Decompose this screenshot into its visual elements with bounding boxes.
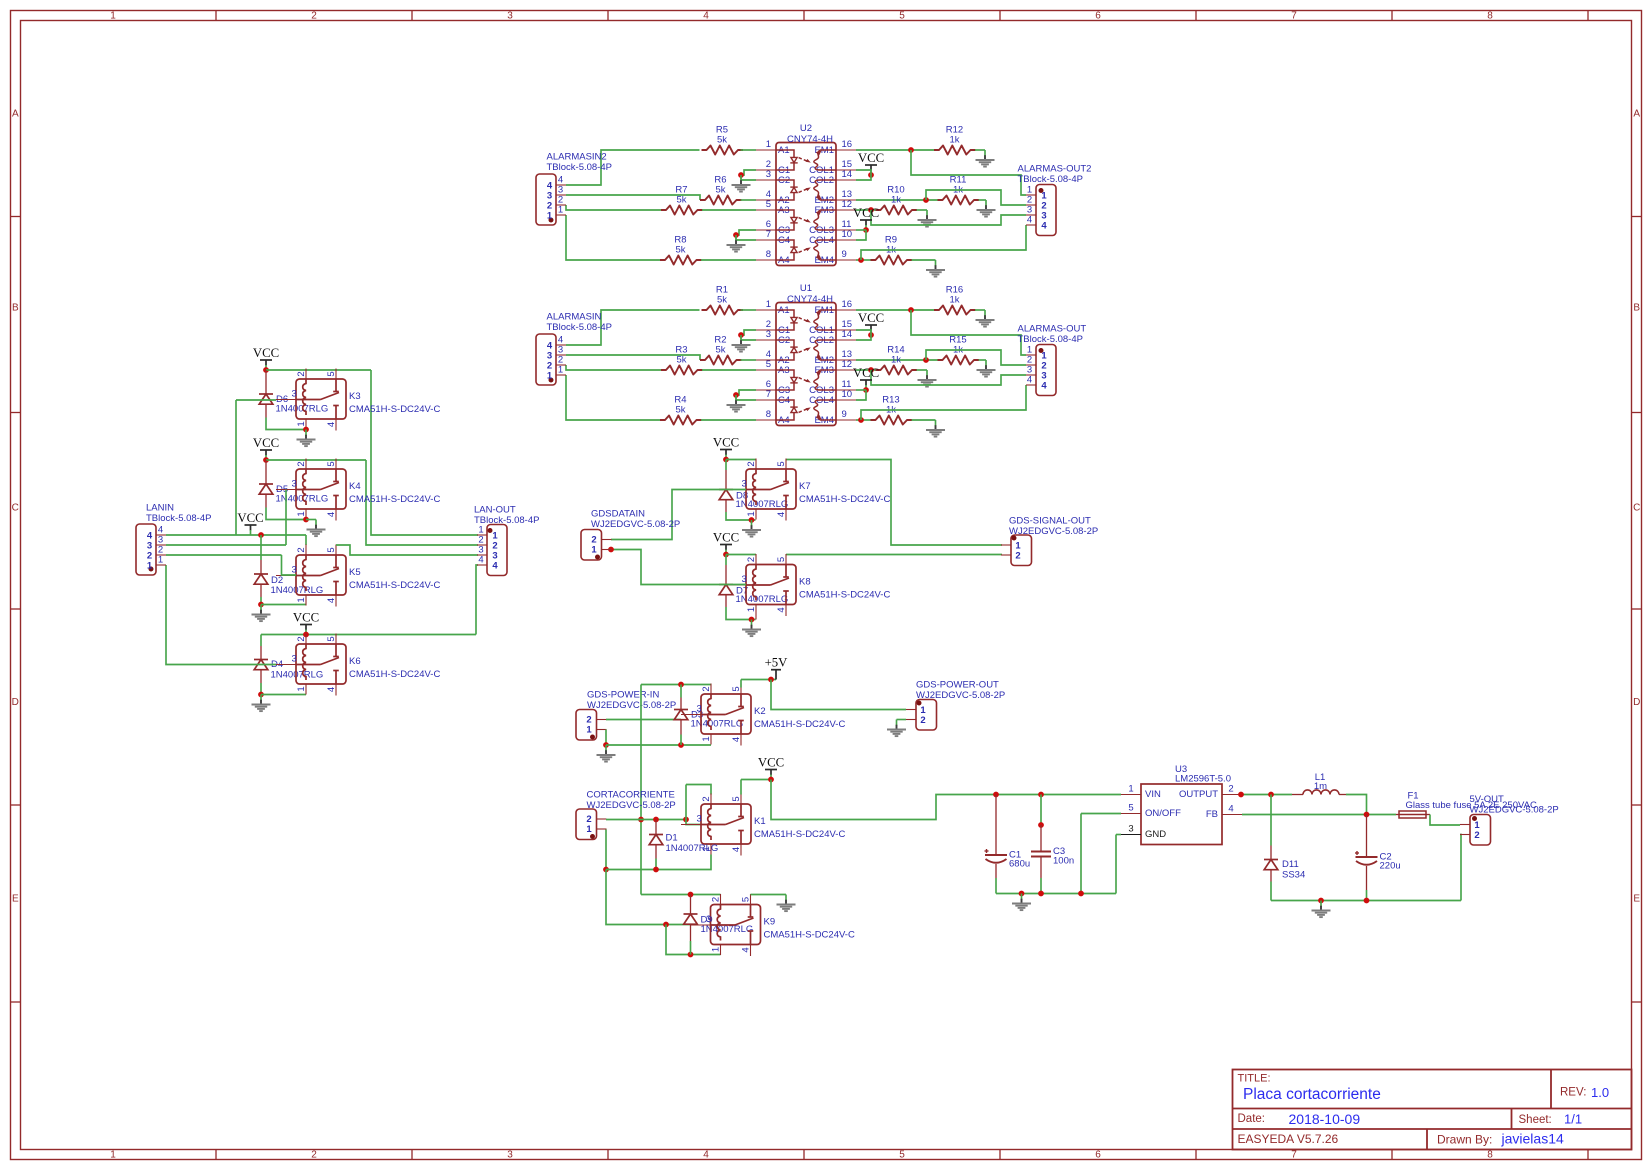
capacitor C1 680u bbox=[985, 854, 1007, 856]
diode D2 top lead bbox=[260, 535, 262, 560]
svg-text:3: 3 bbox=[292, 565, 297, 576]
ground bbox=[984, 150, 986, 156]
U1 pin 3 (C2) stub bbox=[756, 339, 776, 341]
wire R to U pin8 bbox=[701, 419, 756, 421]
svg-text:8: 8 bbox=[766, 409, 771, 420]
svg-text:VCC: VCC bbox=[853, 366, 879, 380]
svg-text:TBlock-5.08-4P: TBlock-5.08-4P bbox=[474, 515, 539, 526]
wire K3.5 to LAN-OUT.1 bbox=[371, 370, 478, 535]
ALARMASIN pin 4 stub bbox=[556, 344, 566, 346]
svg-text:ALARMAS-OUT: ALARMAS-OUT bbox=[1018, 324, 1087, 335]
diode D7 bottom lead bbox=[725, 595, 727, 608]
svg-text:5: 5 bbox=[326, 636, 337, 641]
svg-text:1: 1 bbox=[586, 824, 592, 835]
svg-text:Sheet:: Sheet: bbox=[1519, 1114, 1552, 1126]
GDS-POWER-OUT pin-1 marker bbox=[917, 701, 922, 706]
svg-text:VCC: VCC bbox=[853, 206, 879, 220]
U2 pin 5 (A3) stub bbox=[756, 209, 776, 211]
border column tick bbox=[1391, 11, 1393, 21]
svg-text:7: 7 bbox=[766, 389, 771, 400]
K9 pin 3 stub bbox=[691, 924, 711, 926]
GDS-SIGNAL-OUT pin-1 marker bbox=[1012, 536, 1017, 541]
svg-text:1N4007RLG: 1N4007RLG bbox=[271, 670, 324, 681]
output ground rail bbox=[1271, 900, 1461, 902]
svg-text:5k: 5k bbox=[675, 405, 685, 416]
svg-text:220u: 220u bbox=[1380, 861, 1401, 872]
junction bbox=[908, 307, 914, 313]
relay K5 CMA51H-S-DC24V-C bbox=[296, 555, 346, 595]
svg-text:K7: K7 bbox=[799, 481, 811, 492]
svg-text:4: 4 bbox=[1027, 215, 1032, 226]
svg-text:GDS-SIGNAL-OUT: GDS-SIGNAL-OUT bbox=[1009, 516, 1091, 527]
resistor R9 bbox=[871, 256, 913, 265]
GDSDATAIN pin-1 marker bbox=[595, 555, 600, 560]
K5 pin 4 stub bbox=[335, 595, 337, 607]
diode D5 top lead bbox=[265, 460, 267, 484]
svg-text:C: C bbox=[1633, 503, 1640, 514]
U2 internal channel 4 bbox=[776, 253, 794, 260]
ALARMASIN pin-1 marker bbox=[549, 378, 554, 383]
svg-text:5k: 5k bbox=[717, 135, 727, 146]
svg-text:CMA51H-S-DC24V-C: CMA51H-S-DC24V-C bbox=[764, 930, 855, 941]
wire +5V to GDS-POWER-OUT.1 bbox=[771, 680, 906, 710]
U1 pin 9 (EM4) stub bbox=[836, 419, 856, 421]
connector GDSDATAIN WJ2EDGVC-5.08-2P bbox=[581, 530, 602, 561]
ground bbox=[735, 395, 737, 401]
wire EM3 node bbox=[856, 209, 876, 211]
svg-text:TBlock-5.08-4P: TBlock-5.08-4P bbox=[146, 513, 211, 524]
svg-text:1: 1 bbox=[296, 597, 307, 602]
ALARMAS-OUT pin 4 stub bbox=[1026, 384, 1036, 386]
svg-text:6: 6 bbox=[1095, 10, 1101, 21]
svg-text:2: 2 bbox=[1228, 784, 1233, 795]
ALARMAS-OUT pin 1 stub bbox=[1026, 354, 1036, 356]
VCC flag (K7) bbox=[720, 449, 732, 451]
svg-text:Placa cortacorriente: Placa cortacorriente bbox=[1243, 1086, 1381, 1103]
svg-text:9: 9 bbox=[842, 409, 847, 420]
ALARMAS-OUT2 pin 1 stub bbox=[1026, 194, 1036, 196]
diode D4 bottom lead bbox=[260, 670, 262, 683]
K9 pin 4 stub bbox=[750, 945, 752, 957]
svg-text:10: 10 bbox=[842, 389, 853, 400]
K2 pin 3 stub bbox=[681, 714, 701, 716]
connector ALARMAS-OUT2 TBlock-5.08-4P bbox=[1036, 185, 1056, 236]
K6 pin 4 stub bbox=[335, 684, 337, 696]
svg-text:2: 2 bbox=[311, 1149, 317, 1160]
svg-text:4: 4 bbox=[1041, 221, 1047, 232]
svg-text:LM2596T-5.0: LM2596T-5.0 bbox=[1175, 774, 1231, 785]
svg-text:5k: 5k bbox=[675, 245, 685, 256]
ground bbox=[735, 235, 737, 241]
relay K6 CMA51H-S-DC24V-C bbox=[296, 644, 346, 684]
U1 pin 15 (COL1) stub bbox=[836, 329, 856, 331]
K4 pin 2 stub bbox=[305, 459, 307, 470]
ALARMASIN2 pin 2 stub bbox=[556, 204, 566, 206]
wire VCC to U3 VIN rail bbox=[771, 780, 1121, 820]
U2 pin 13 (EM2) stub bbox=[836, 199, 856, 201]
junction bbox=[738, 172, 744, 178]
ground bbox=[926, 210, 928, 216]
capacitor C2 220u bbox=[1356, 856, 1378, 858]
svg-text:12: 12 bbox=[842, 359, 853, 370]
svg-text:U2: U2 bbox=[800, 123, 812, 134]
svg-text:GND: GND bbox=[1145, 829, 1166, 840]
K6 pin 1 stub bbox=[305, 684, 307, 695]
diode D11 bottom lead bbox=[1270, 870, 1272, 882]
+5V flag bbox=[771, 669, 781, 671]
svg-text:K3: K3 bbox=[349, 391, 361, 402]
wire CORTACORRIENTE.1 down bbox=[605, 830, 607, 870]
wire VCC to K3 coil/contact bbox=[266, 369, 371, 371]
junction bbox=[768, 677, 774, 683]
svg-text:K2: K2 bbox=[754, 706, 766, 717]
wire K9.5 to ground bbox=[751, 894, 787, 896]
ALARMAS-OUT pin 2 stub bbox=[1026, 364, 1036, 366]
resistor R6 bbox=[700, 196, 742, 205]
wire R to U pin1 bbox=[741, 149, 757, 151]
junction bbox=[863, 227, 869, 233]
wire K5.5 to LAN-OUT.3 bbox=[336, 545, 478, 555]
svg-text:CMA51H-S-DC24V-C: CMA51H-S-DC24V-C bbox=[799, 590, 890, 601]
wire D4 to ground node bbox=[260, 683, 262, 695]
K3 pin 1 stub bbox=[305, 419, 307, 430]
LAN-OUT pin 1 stub bbox=[477, 534, 487, 536]
svg-text:CMA51H-S-DC24V-C: CMA51H-S-DC24V-C bbox=[349, 494, 440, 505]
relay K8 CMA51H-S-DC24V-C bbox=[746, 565, 796, 605]
junction bbox=[683, 817, 689, 823]
diode D11 SS34 bbox=[1264, 859, 1278, 861]
svg-text:16: 16 bbox=[842, 299, 853, 310]
K8 pin 4 stub bbox=[785, 605, 787, 617]
svg-text:1N4007RLG: 1N4007RLG bbox=[666, 843, 719, 854]
svg-text:CMA51H-S-DC24V-C: CMA51H-S-DC24V-C bbox=[349, 404, 440, 415]
CORTACORRIENTE pin-1 marker bbox=[590, 834, 595, 839]
border row tick bbox=[11, 608, 21, 610]
wire VCC to K7 coil bbox=[726, 459, 756, 461]
U1 pin 6 (C3) stub bbox=[756, 389, 776, 391]
diode D2 1N4007RLG bbox=[254, 573, 268, 575]
LAN-OUT pin 4 stub bbox=[477, 564, 487, 566]
junction bbox=[303, 632, 309, 638]
svg-text:1: 1 bbox=[558, 365, 563, 376]
junction bbox=[908, 147, 914, 153]
svg-text:4: 4 bbox=[326, 422, 337, 427]
junction bbox=[723, 552, 729, 558]
svg-text:K8: K8 bbox=[799, 577, 811, 588]
wire OUTPUT node bbox=[1242, 794, 1292, 796]
wire C3/C4 to ground bbox=[736, 390, 756, 395]
svg-text:1: 1 bbox=[110, 10, 116, 21]
svg-text:Date:: Date: bbox=[1238, 1113, 1266, 1125]
junction bbox=[688, 892, 694, 898]
junction bbox=[258, 692, 264, 698]
node K2 coil top row bbox=[641, 684, 711, 686]
CORTACORRIENTE pin 1 stub bbox=[597, 828, 607, 830]
wire COL2 to VCC bbox=[856, 335, 871, 340]
ALARMASIN2 pin 1 stub bbox=[556, 214, 566, 216]
U1 pin 10 (COL4) stub bbox=[836, 399, 856, 401]
diode D3 top lead bbox=[680, 685, 682, 698]
wire ground row to K2.1 bbox=[606, 744, 711, 746]
wire K8.5 to GDS-SIGNAL-OUT.2 bbox=[786, 554, 1002, 556]
wire K9 coil row bbox=[641, 894, 721, 896]
svg-text:5: 5 bbox=[326, 371, 337, 376]
svg-text:REV:: REV: bbox=[1560, 1087, 1586, 1099]
svg-text:12: 12 bbox=[842, 199, 853, 210]
ground bbox=[751, 520, 753, 526]
svg-text:5k: 5k bbox=[717, 295, 727, 306]
GDS-POWER-OUT pin 1 stub bbox=[906, 709, 916, 711]
U1 internal channel 2 bbox=[776, 353, 794, 360]
U3 pin 5 ON/OFF stub bbox=[1121, 813, 1141, 815]
svg-text:TBlock-5.08-4P: TBlock-5.08-4P bbox=[1018, 174, 1083, 185]
svg-text:U1: U1 bbox=[800, 283, 812, 294]
wire ALARMASIN.1 to R4 bbox=[566, 375, 660, 420]
diode D8 top lead bbox=[725, 460, 727, 471]
wire L1 to C2/FB bbox=[1346, 795, 1367, 815]
U1 pin 1 (A1) stub bbox=[756, 309, 776, 311]
connector ALARMASIN TBlock-5.08-4P bbox=[536, 334, 556, 385]
svg-text:3: 3 bbox=[292, 654, 297, 665]
svg-text:9: 9 bbox=[842, 249, 847, 260]
relay K4 CMA51H-S-DC24V-C bbox=[296, 469, 346, 509]
svg-text:2: 2 bbox=[296, 461, 307, 466]
wire R11 to ground bbox=[979, 199, 987, 201]
svg-text:ALARMASIN2: ALARMASIN2 bbox=[547, 152, 607, 163]
wire R10 to ground bbox=[917, 209, 928, 211]
svg-text:EASYEDA V5.7.26: EASYEDA V5.7.26 bbox=[1238, 1132, 1339, 1146]
junction bbox=[1038, 822, 1044, 828]
svg-text:4: 4 bbox=[326, 687, 337, 692]
border column tick bbox=[999, 11, 1001, 21]
svg-text:8: 8 bbox=[1487, 10, 1493, 21]
GDS-POWER-IN pin 1 stub bbox=[597, 729, 607, 731]
wire bottom row to K1.1 bbox=[606, 855, 711, 870]
U1 pin 16 (EM1) stub bbox=[836, 309, 856, 311]
junction bbox=[993, 792, 999, 798]
wire down to K9.3 row bbox=[606, 870, 691, 925]
wire COL1 to VCC bbox=[856, 170, 871, 175]
svg-text:VCC: VCC bbox=[758, 756, 784, 770]
svg-text:1: 1 bbox=[110, 1149, 116, 1160]
relay K7 CMA51H-S-DC24V-C bbox=[746, 469, 796, 509]
diode D1 1N4007RLG bbox=[649, 834, 663, 836]
junction bbox=[868, 172, 874, 178]
K3 pin 5 stub bbox=[335, 369, 337, 380]
svg-text:4: 4 bbox=[776, 607, 787, 612]
wire K2.5 to +5V bbox=[740, 680, 742, 688]
diode D1 top lead bbox=[655, 820, 657, 835]
svg-text:4: 4 bbox=[776, 512, 787, 517]
ALARMAS-OUT pin-1 marker bbox=[1039, 348, 1044, 353]
wire GDS-POWER-IN.1 down bbox=[605, 730, 607, 746]
svg-text:1N4007RLG: 1N4007RLG bbox=[736, 594, 789, 605]
svg-text:3: 3 bbox=[697, 814, 702, 825]
svg-text:TBlock-5.08-4P: TBlock-5.08-4P bbox=[1018, 334, 1083, 345]
GDSDATAIN pin 1 stub bbox=[602, 549, 612, 551]
svg-text:B: B bbox=[1633, 303, 1640, 314]
svg-text:GDSDATAIN: GDSDATAIN bbox=[591, 509, 645, 520]
diode D5 bottom lead bbox=[265, 495, 267, 508]
junction bbox=[723, 457, 729, 463]
diode D6 1N4007RLG bbox=[259, 393, 273, 395]
svg-text:1: 1 bbox=[766, 139, 771, 150]
wire EM1 node bbox=[856, 309, 934, 311]
svg-text:CNY74-4H: CNY74-4H bbox=[787, 294, 833, 305]
svg-text:5: 5 bbox=[766, 199, 771, 210]
svg-text:K6: K6 bbox=[349, 656, 361, 667]
border column tick bbox=[1195, 11, 1197, 21]
svg-text:K5: K5 bbox=[349, 567, 361, 578]
wire R14 to ground bbox=[917, 369, 928, 371]
VCC flag bbox=[865, 164, 877, 166]
svg-text:WJ2EDGVC-5.08-2P: WJ2EDGVC-5.08-2P bbox=[587, 800, 676, 811]
wire EM3 to ALARMAS-OUT2.3 bbox=[871, 210, 1026, 225]
svg-text:7: 7 bbox=[1291, 10, 1297, 21]
border column tick bbox=[215, 11, 217, 21]
5V-OUT pin-1 marker bbox=[1472, 816, 1477, 821]
junction bbox=[663, 922, 669, 928]
VCC flag (K1) bbox=[765, 769, 777, 771]
wire EM3 to ALARMAS-OUT.3 bbox=[871, 370, 1026, 385]
junction bbox=[258, 602, 264, 608]
svg-text:ALARMASIN: ALARMASIN bbox=[547, 312, 602, 323]
junction bbox=[1268, 792, 1274, 798]
ALARMAS-OUT2 pin 4 stub bbox=[1026, 224, 1036, 226]
junction bbox=[653, 867, 659, 873]
svg-text:CMA51H-S-DC24V-C: CMA51H-S-DC24V-C bbox=[799, 494, 890, 505]
svg-text:C: C bbox=[12, 503, 19, 514]
wire K4.1 to ground bbox=[306, 519, 316, 521]
GDS-SIGNAL-OUT pin 1 stub bbox=[1001, 544, 1011, 546]
svg-text:3: 3 bbox=[507, 10, 513, 21]
svg-text:D1: D1 bbox=[666, 833, 678, 844]
svg-text:2018-10-09: 2018-10-09 bbox=[1289, 1111, 1361, 1127]
LANIN pin 3 stub bbox=[156, 544, 166, 546]
K4 pin 3 stub bbox=[276, 489, 296, 491]
K7 pin 3 stub bbox=[726, 489, 746, 491]
U1 pin 5 (A3) stub bbox=[756, 369, 776, 371]
U2 pin 14 (COL2) stub bbox=[836, 179, 856, 181]
svg-text:100n: 100n bbox=[1053, 856, 1074, 867]
svg-text:2: 2 bbox=[701, 796, 712, 801]
capacitor C3 bottom lead bbox=[1040, 857, 1042, 879]
svg-text:1: 1 bbox=[701, 736, 712, 741]
ground bbox=[1021, 894, 1023, 900]
svg-text:CMA51H-S-DC24V-C: CMA51H-S-DC24V-C bbox=[349, 669, 440, 680]
ground bbox=[751, 620, 753, 626]
border row tick bbox=[11, 804, 21, 806]
svg-text:5: 5 bbox=[776, 557, 787, 562]
svg-text:VCC: VCC bbox=[237, 511, 263, 525]
junction bbox=[638, 817, 644, 823]
LAN-OUT pin-1 marker bbox=[488, 528, 493, 533]
svg-text:2: 2 bbox=[1474, 830, 1479, 841]
svg-text:1: 1 bbox=[147, 561, 153, 572]
wire FB row bbox=[1242, 814, 1396, 816]
wire COL3 to VCC bbox=[856, 229, 866, 231]
resistor R15 bbox=[938, 356, 980, 365]
U1 pin 12 (EM3) stub bbox=[836, 369, 856, 371]
K3 pin 4 stub bbox=[335, 419, 337, 431]
wire ALARMASIN2.4 to R5 bbox=[566, 150, 700, 185]
svg-text:4: 4 bbox=[731, 737, 742, 742]
svg-text:2: 2 bbox=[296, 547, 307, 552]
diode D1 bottom lead bbox=[655, 845, 657, 859]
svg-text:1: 1 bbox=[746, 607, 757, 612]
wire C1/C2 to ground bbox=[741, 170, 756, 175]
wire ALARMASIN.2 to R3 bbox=[566, 365, 661, 370]
diode D7 top lead bbox=[725, 555, 727, 566]
ALARMAS-OUT2 pin 3 stub bbox=[1026, 214, 1036, 216]
LANIN pin 2 stub bbox=[156, 554, 166, 556]
svg-text:4: 4 bbox=[741, 947, 752, 952]
svg-text:VCC: VCC bbox=[713, 436, 739, 450]
node VCC/LANIN.4 row bbox=[166, 534, 306, 536]
U1 pin 4 (A2) stub bbox=[756, 359, 776, 361]
svg-text:5: 5 bbox=[326, 547, 337, 552]
svg-text:1: 1 bbox=[586, 725, 592, 736]
wire EM4 node bbox=[856, 259, 871, 261]
resistor R14 bbox=[876, 366, 918, 375]
U2 internal channel 1 bbox=[776, 150, 794, 157]
ground bbox=[926, 370, 928, 376]
svg-text:CMA51H-S-DC24V-C: CMA51H-S-DC24V-C bbox=[754, 719, 845, 730]
wire EM4 to ALARMAS-OUT2.4 bbox=[861, 225, 1026, 260]
ground bbox=[985, 360, 987, 366]
junction bbox=[1318, 898, 1324, 904]
resistor R5 bbox=[702, 146, 744, 155]
svg-text:E: E bbox=[12, 894, 19, 905]
svg-text:3: 3 bbox=[292, 389, 297, 400]
svg-text:K4: K4 bbox=[349, 481, 361, 492]
svg-text:2: 2 bbox=[1015, 551, 1020, 562]
wire ALARMASIN.4 to R1 bbox=[566, 310, 700, 345]
svg-text:VIN: VIN bbox=[1145, 789, 1161, 800]
ground bbox=[1320, 901, 1322, 907]
ALARMASIN2 pin 3 stub bbox=[556, 194, 566, 196]
connector LAN-OUT TBlock-5.08-4P bbox=[487, 525, 507, 576]
wire R to U pin5 bbox=[702, 209, 756, 211]
U2 internal channel 2 bbox=[776, 193, 794, 200]
junction bbox=[303, 517, 309, 523]
svg-text:GDS-POWER-IN: GDS-POWER-IN bbox=[587, 690, 659, 701]
svg-text:VCC: VCC bbox=[253, 346, 279, 360]
svg-text:3: 3 bbox=[742, 574, 747, 585]
connector GDS-SIGNAL-OUT WJ2EDGVC-5.08-2P bbox=[1011, 535, 1032, 566]
svg-text:1/1: 1/1 bbox=[1564, 1112, 1582, 1127]
border column tick bbox=[1587, 11, 1589, 21]
svg-text:1k: 1k bbox=[891, 195, 901, 206]
wire K7.5 to GDS-SIGNAL-OUT.1 bbox=[786, 460, 1002, 546]
wire EM2 to ALARMAS-OUT.2 bbox=[926, 350, 1026, 365]
svg-text:1: 1 bbox=[591, 545, 597, 556]
GDS-SIGNAL-OUT pin 2 stub bbox=[1001, 554, 1011, 556]
wire VCC to K4 coil/contact bbox=[266, 459, 366, 461]
K8 pin 1 stub bbox=[755, 605, 757, 620]
junction bbox=[678, 682, 684, 688]
junction bbox=[923, 197, 929, 203]
K1 pin 3 stub bbox=[681, 824, 701, 826]
ground bbox=[985, 200, 987, 206]
wire COL3 to VCC bbox=[856, 389, 866, 391]
wire LANIN.4 to K3.3 bbox=[236, 399, 276, 401]
wire GND pin down bbox=[1116, 834, 1121, 836]
svg-text:1: 1 bbox=[746, 511, 757, 516]
wire COL2 to VCC bbox=[856, 175, 871, 180]
inductor L1 1m bbox=[1292, 794, 1303, 796]
IC U3 LM2596T-5.0 body bbox=[1141, 784, 1222, 845]
